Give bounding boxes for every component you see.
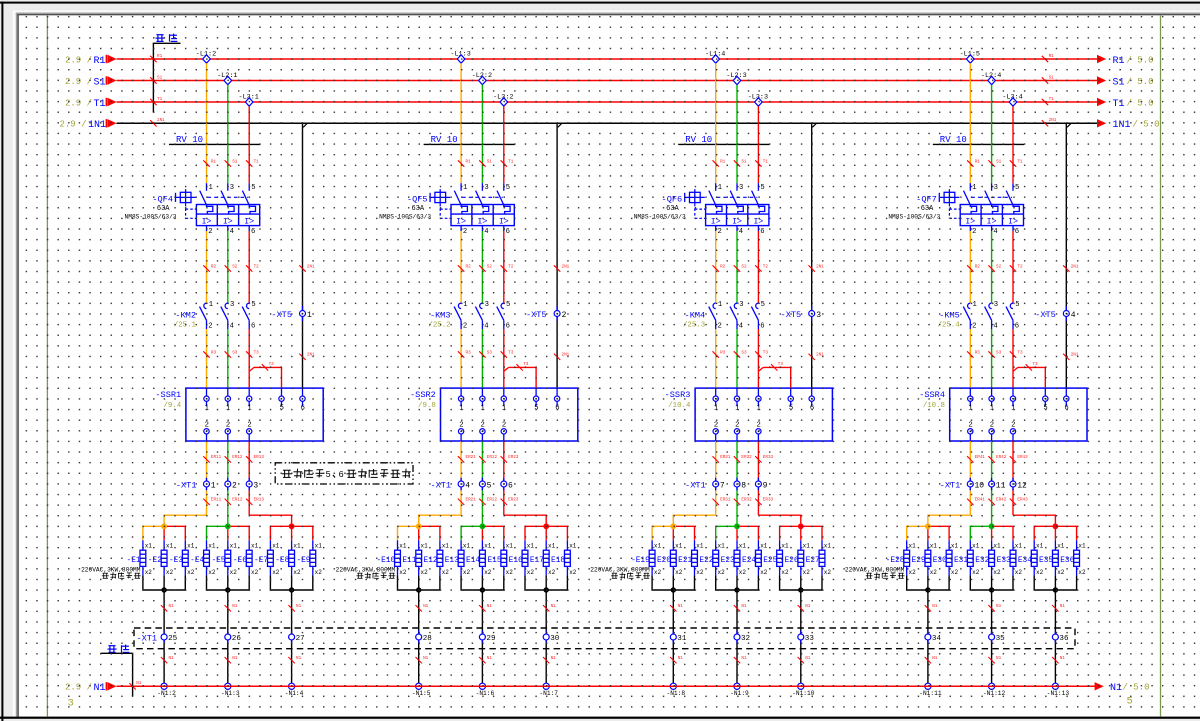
terminal -XT1:32: [734, 631, 751, 644]
solid-state relay -SSR2: [410, 388, 578, 441]
heater -E33: [992, 540, 1022, 576]
wire 1N1 drop: [1065, 123, 1067, 388]
wire L3 to heater node: [758, 515, 800, 526]
terminal -XT5:1: [271, 306, 312, 321]
wire tag ER1 lower: [713, 498, 731, 505]
wire tag S1 drop: [225, 159, 238, 166]
circuit breaker -QF7: [888, 183, 1023, 236]
wire tag ER1 upper: [713, 455, 731, 462]
wire tag N1 bottom left: [129, 681, 141, 689]
heater -E21: [673, 540, 703, 576]
wire tag ER3 upper: [501, 455, 519, 462]
busbar RV 10 label: [678, 135, 769, 145]
heater group 3 neutral bus: [525, 575, 567, 590]
node 1N1 tee jog: [558, 123, 562, 127]
wire L3 SSR-XT1: [1012, 441, 1014, 515]
heater -E4: [190, 540, 216, 576]
wire tag N1 above XT1 g3: [798, 604, 811, 611]
junction dot group 1: [161, 587, 166, 592]
wire L1 KM-SSR: [969, 329, 971, 388]
wire tag R2: [458, 264, 471, 271]
wire L3 SSR-XT1: [757, 441, 759, 515]
wire tag R1 drop: [203, 159, 216, 166]
heater node arm 2 right: [482, 526, 503, 540]
wire neutral drop 2: [227, 575, 229, 686]
terminal strip -XT1:1-3: [176, 478, 259, 491]
column marker 3: [68, 698, 74, 710]
wire L3 QF-KM: [248, 231, 250, 303]
heater node arm 1 right: [928, 526, 949, 540]
wire L2 KM-SSR: [227, 329, 229, 388]
terminal -XT5:2: [526, 306, 567, 321]
heater node arm 3 left: [270, 526, 291, 540]
heater -E25: [759, 540, 789, 576]
wire L3 KM-SSR: [757, 329, 759, 388]
wire L2 SSR-XT1: [481, 441, 483, 526]
wire 1N1 drop: [556, 123, 558, 388]
wire L1 drop to QF: [206, 63, 208, 183]
heater -E23: [716, 540, 746, 576]
wire L1 SSR-XT1: [460, 441, 462, 515]
wire tag R1 drop: [713, 159, 726, 166]
wire tag R3: [713, 350, 726, 357]
wire L3 KM-SSR: [248, 329, 250, 388]
wire L1 to heater node: [673, 515, 715, 526]
junction dot group 1: [925, 587, 930, 592]
terminal node -N1:8: [667, 683, 686, 697]
heater -E35: [1034, 540, 1064, 576]
terminal strip -XT1:4-6: [430, 478, 513, 491]
junction node 3 red: [798, 523, 804, 529]
wire tag ER2 upper: [734, 455, 752, 462]
terminal node -N1:3: [221, 683, 240, 697]
wire L2 KM-SSR: [481, 329, 483, 388]
solid-state relay -SSR1: [155, 388, 323, 441]
heater node arm 2 mid: [227, 526, 229, 540]
wire L3 drop to QF: [1012, 106, 1014, 183]
heater node arm 3 mid: [800, 526, 802, 540]
wire tag T1 drop: [501, 159, 514, 166]
wire L2 SSR-XT1: [991, 441, 993, 526]
heater node arm 3 right: [292, 526, 313, 540]
heater spec label: [336, 567, 396, 579]
node 1N1 tee jog: [303, 123, 307, 127]
bus 1N1: [117, 122, 1098, 124]
heater node arm 1 mid: [672, 526, 674, 540]
wire tag N1 above XT1 g3: [543, 604, 556, 611]
junction dot group 2: [734, 587, 739, 592]
heater -E36: [1056, 540, 1086, 576]
junction node 2 green: [225, 523, 231, 529]
heater node arm 2 right: [228, 526, 249, 540]
junction node 2 green: [480, 523, 486, 529]
heater node arm 3 mid: [291, 526, 293, 540]
copper busbar bracket (bottom): [101, 653, 133, 696]
wire L1 drop to QF: [460, 63, 462, 183]
wire tag N1 below XT1 g2: [479, 656, 492, 663]
destination arrow S1 right: [1097, 76, 1154, 88]
wire L1 to heater node: [928, 515, 970, 526]
heater -E7: [254, 540, 280, 576]
destination arrow R1 right: [1097, 55, 1154, 67]
wire neutral drop 2: [736, 575, 738, 686]
heater -E15: [483, 540, 513, 576]
heater -E11: [398, 540, 428, 576]
wire neutral drop 2: [481, 575, 483, 686]
contactor -KM4: [683, 301, 765, 331]
wire tag T3: [501, 350, 514, 357]
junction dot group 3: [544, 587, 549, 592]
source arrow S1 left: [65, 76, 117, 88]
bus T1: [117, 101, 1098, 103]
wire tag 2N1 upper: [809, 264, 825, 271]
wire tag S3: [988, 350, 1001, 357]
wire L3 KM-SSR: [503, 329, 505, 388]
wire neutral drop 3: [291, 575, 293, 686]
wire tag ER1 lower: [967, 498, 985, 505]
heater -E20: [652, 540, 682, 576]
wire tag S2: [734, 264, 747, 271]
wire tag N1 above XT1 g2: [734, 604, 747, 611]
wire 1N1 drop: [811, 123, 813, 388]
copper busbar label (top): [156, 34, 178, 42]
wire neutral drop 3: [800, 575, 802, 686]
wire tag N1 below XT1 g2: [988, 656, 1001, 663]
wire L2 QF-KM: [481, 231, 483, 303]
terminal -XT1:35: [989, 631, 1006, 644]
heater -E14: [461, 540, 491, 576]
heater group 1 neutral bus: [652, 575, 694, 590]
heater -E24: [737, 540, 767, 576]
terminal -XT1:30: [543, 631, 560, 644]
heater node arm L1 left: [143, 526, 164, 540]
wire L3 drop to QF: [757, 106, 759, 183]
heater group 3 neutral bus: [1034, 575, 1076, 590]
wire L1 KM-SSR: [715, 329, 717, 388]
wire tag ER2 lower: [988, 498, 1006, 505]
wire fan branch: [249, 362, 281, 388]
heater node arm 1 mid: [418, 526, 420, 540]
wire fan branch: [1013, 362, 1045, 388]
heater node arm 3 right: [801, 526, 822, 540]
junction dot group 1: [671, 587, 676, 592]
wire L2 KM-SSR: [991, 329, 993, 388]
heater node arm L2 left: [970, 526, 991, 540]
wire tag T2: [501, 264, 514, 271]
terminal node -N1:11: [919, 683, 942, 697]
wire neutral drop 2: [991, 575, 993, 686]
wire tag T3: [755, 350, 768, 357]
wire tag T2: [246, 264, 259, 271]
wire tag N1 below XT1 g1: [161, 656, 174, 663]
terminal strip box -XT1 (dashed): [134, 628, 1075, 649]
node -L1:2 diamond: [196, 50, 216, 63]
terminal -XT1:29: [479, 631, 496, 644]
wire tag N1 above XT1 g2: [988, 604, 1001, 611]
heater -E17: [525, 540, 555, 576]
outer border line top: [0, 2, 1200, 4]
wire L3 drop to QF: [503, 106, 505, 183]
heater group 1 neutral bus: [907, 575, 949, 590]
node -L2:2 diamond: [472, 72, 492, 85]
heater -E34: [1013, 540, 1043, 576]
heater node arm 3 right: [546, 526, 567, 540]
junction dot group 2: [989, 587, 994, 592]
wire tag ER2 upper: [479, 455, 497, 462]
wire tag R2: [713, 264, 726, 271]
wire tag 1N1 left: [150, 118, 165, 126]
wire neutral drop 1: [672, 575, 674, 686]
node -L2:4 diamond: [981, 72, 1001, 85]
wire tag R3: [967, 350, 980, 357]
heater group 3 neutral bus: [270, 575, 312, 590]
terminal node -N1:7: [539, 683, 558, 697]
heater spec label: [590, 567, 650, 579]
terminal -XT1:25: [136, 631, 177, 644]
terminal -XT1:36: [1052, 631, 1069, 644]
copper busbar label (bottom): [108, 645, 130, 653]
wire L3 SSR-XT1: [503, 441, 505, 515]
circuit breaker -QF6: [634, 183, 769, 236]
bevel light top: [13, 10, 1200, 12]
wire tag N1 above XT1 g3: [1052, 604, 1065, 611]
terminal strip -XT1:10-12: [940, 478, 1027, 491]
wire tag N1 below XT1 g2: [734, 656, 747, 663]
contactor -KM3: [428, 301, 510, 331]
junction node 1 orange: [161, 523, 167, 529]
wire tag N1 below XT1 g3: [288, 656, 301, 663]
bevel light left: [13, 13, 16, 717]
wire L3 to heater node: [249, 515, 291, 526]
heater node arm 1 right: [419, 526, 440, 540]
wire tag ER3 upper: [1010, 455, 1028, 462]
wire tag R1 drop: [967, 159, 980, 166]
source arrow T1 left: [65, 98, 117, 110]
wire tag 2N1 lower: [809, 353, 825, 360]
wire neutral drop 1: [927, 575, 929, 686]
source arrow R1 left: [65, 55, 117, 67]
contactor -KM5: [938, 301, 1020, 331]
wire L1 QF-KM: [969, 231, 971, 303]
bus S1: [117, 80, 1098, 82]
contactor -KM2: [174, 301, 256, 331]
wire tag ER3 lower: [1010, 498, 1028, 505]
junction node 1 orange: [925, 523, 931, 529]
wire L3 to heater node: [1013, 515, 1055, 526]
wire tag N1 below XT1 g1: [416, 656, 429, 663]
wire L1 SSR-XT1: [969, 441, 971, 515]
wire tag R1 drop: [458, 159, 471, 166]
bevel grey top: [14, 13, 1200, 15]
wire tag S2: [479, 264, 492, 271]
heater node arm 1 mid: [927, 526, 929, 540]
busbar RV 10 label: [424, 135, 515, 145]
wire tag ER2 lower: [225, 498, 243, 505]
heater group 3 neutral bus: [780, 575, 822, 590]
wire neutral drop 3: [545, 575, 547, 686]
node -L2:1 diamond: [217, 72, 237, 85]
wire tag S2: [988, 264, 1001, 271]
wire tag T1 left: [150, 97, 162, 105]
wire L2 drop to QF: [227, 85, 229, 184]
wire tag ER3 lower: [755, 498, 773, 505]
junction node 3 red: [289, 523, 295, 529]
heater -E29: [907, 540, 937, 576]
wire tag ER2 lower: [479, 498, 497, 505]
bevel grey left: [16, 13, 18, 717]
wire tag ER2 upper: [225, 455, 243, 462]
wire tag T1 drop: [246, 159, 259, 166]
wire tag ER1 lower: [458, 498, 476, 505]
node 1N1 tee jog: [1067, 123, 1071, 127]
node -L3:2 diamond: [493, 93, 513, 106]
terminal node -N1:6: [476, 683, 495, 697]
heater -E26: [780, 540, 810, 576]
wire tag ER3 lower: [246, 498, 264, 505]
wire tag S1 drop: [734, 159, 747, 166]
wire neutral drop 1: [418, 575, 420, 686]
wire tag T2: [1010, 264, 1023, 271]
heater -E32: [971, 540, 1001, 576]
wire L3 KM-SSR: [1012, 329, 1014, 388]
heater -E13: [440, 540, 470, 576]
junction node 1 orange: [416, 523, 422, 529]
solid-state relay -SSR3: [665, 388, 833, 441]
wire tag ER1 upper: [458, 455, 476, 462]
wire tag R2: [967, 264, 980, 271]
wire L3 QF-KM: [1012, 231, 1014, 303]
junction node 3 red: [543, 523, 549, 529]
copper busbar bracket (top): [153, 43, 180, 112]
heater node arm 3 mid: [545, 526, 547, 540]
wire tag S2: [225, 264, 238, 271]
junction node 1 orange: [670, 523, 676, 529]
terminal -XT5:3: [781, 306, 822, 321]
heater -E28: [886, 540, 916, 576]
wire tag N1 below XT1 g3: [1052, 656, 1065, 663]
wire L1 drop to QF: [715, 63, 717, 183]
wire tag T1 drop: [755, 159, 768, 166]
wire tag T1 drop: [1010, 159, 1023, 166]
junction dot group 2: [225, 587, 230, 592]
terminal node -N1:10: [792, 683, 815, 697]
wire tag N1 below XT1 g1: [670, 656, 683, 663]
wire L1 QF-KM: [206, 231, 208, 303]
heater -E19: [631, 540, 661, 576]
wire tag 1N1 right: [1042, 118, 1057, 126]
wire tag 2N1 lower: [554, 353, 570, 360]
solid-state relay -SSR4: [919, 388, 1087, 441]
wire tag S3: [479, 350, 492, 357]
junction dot group 1: [416, 587, 421, 592]
wire L2 KM-SSR: [736, 329, 738, 388]
wire tag R3: [203, 350, 216, 357]
outer border line left: [1, 2, 3, 721]
node -L1:5 diamond: [960, 50, 980, 63]
busbar RV 10 label: [169, 135, 260, 145]
bevel dark top: [16, 14, 1200, 15]
junction dot group 2: [480, 587, 485, 592]
wire fan branch: [758, 362, 790, 388]
wire tag N1 above XT1 g1: [670, 604, 683, 611]
wire L3 QF-KM: [757, 231, 759, 303]
heater -E5: [211, 540, 237, 576]
heater -E3: [169, 540, 195, 576]
wire tag R3: [458, 350, 471, 357]
junction node 2 green: [734, 523, 740, 529]
wire tag N1 below XT1 g2: [225, 656, 238, 663]
heater node arm 3 left: [780, 526, 801, 540]
terminal node -N1:4: [285, 683, 304, 697]
heater node arm 2 mid: [481, 526, 483, 540]
node -L1:4 diamond: [705, 50, 725, 63]
wire tag S1 drop: [479, 159, 492, 166]
circuit breaker -QF5: [379, 183, 514, 236]
heater node arm 2 right: [992, 526, 1013, 540]
terminal -XT1:27: [289, 631, 305, 644]
wire tag N1 below XT1 g3: [798, 656, 811, 663]
wire tag S1 drop: [988, 159, 1001, 166]
heater group 2 neutral bus: [461, 575, 504, 590]
bottom border line: [0, 717, 1200, 719]
busbar RV 10 label: [933, 135, 1024, 145]
terminal node -N1:2: [157, 683, 176, 697]
node -L3:1 diamond: [238, 93, 258, 106]
heater node arm 3 right: [1055, 526, 1076, 540]
node -L2:3 diamond: [726, 72, 746, 85]
left margin green line: [46, 15, 48, 716]
terminal node -N1:9: [730, 683, 749, 697]
wire tag N1 below XT1 g3: [543, 656, 556, 663]
wire neutral drop 3: [1054, 575, 1056, 686]
heater spec label: [81, 567, 141, 579]
wire L2 drop to QF: [736, 85, 738, 184]
wire L2 QF-KM: [736, 231, 738, 303]
heater group 1 neutral bus: [143, 575, 185, 590]
heater node arm L2 left: [716, 526, 737, 540]
destination arrow 1N1 right: [1097, 119, 1160, 131]
wire L2 QF-KM: [227, 231, 229, 303]
terminal node -N1:13: [1047, 683, 1070, 697]
wire L2 drop to QF: [481, 85, 483, 184]
source arrow N1 bottom: [65, 682, 117, 694]
heater node arm 2 mid: [991, 526, 993, 540]
wire tag N1 above XT1 g2: [225, 604, 238, 611]
wire tag T3: [246, 350, 259, 357]
node -L3:4 diamond: [1002, 93, 1022, 106]
wire tag ER2 lower: [734, 498, 752, 505]
wire tag N1 above XT1 g2: [479, 604, 492, 611]
heater node arm 1 right: [673, 526, 694, 540]
terminal -XT1:31: [670, 631, 687, 644]
wire L1 SSR-XT1: [206, 441, 208, 515]
annotation box: SSR terminals 5,6 fan supply: [275, 463, 413, 484]
source arrow 1N1 left: [59, 119, 116, 131]
column marker 5: [1127, 696, 1133, 708]
terminal -XT1:33: [798, 631, 815, 644]
wire tag ER2 upper: [988, 455, 1006, 462]
wire tag N1 above XT1 g1: [161, 604, 174, 611]
right margin green line: [1160, 15, 1162, 716]
node -L3:3 diamond: [748, 93, 768, 106]
wire L2 QF-KM: [991, 231, 993, 303]
heater node arm 3 left: [525, 526, 546, 540]
wire L1 QF-KM: [715, 231, 717, 303]
heater -E30: [928, 540, 958, 576]
destination arrow T1 right: [1097, 98, 1154, 110]
heater -E12: [419, 540, 449, 576]
wire neutral drop 1: [163, 575, 165, 686]
